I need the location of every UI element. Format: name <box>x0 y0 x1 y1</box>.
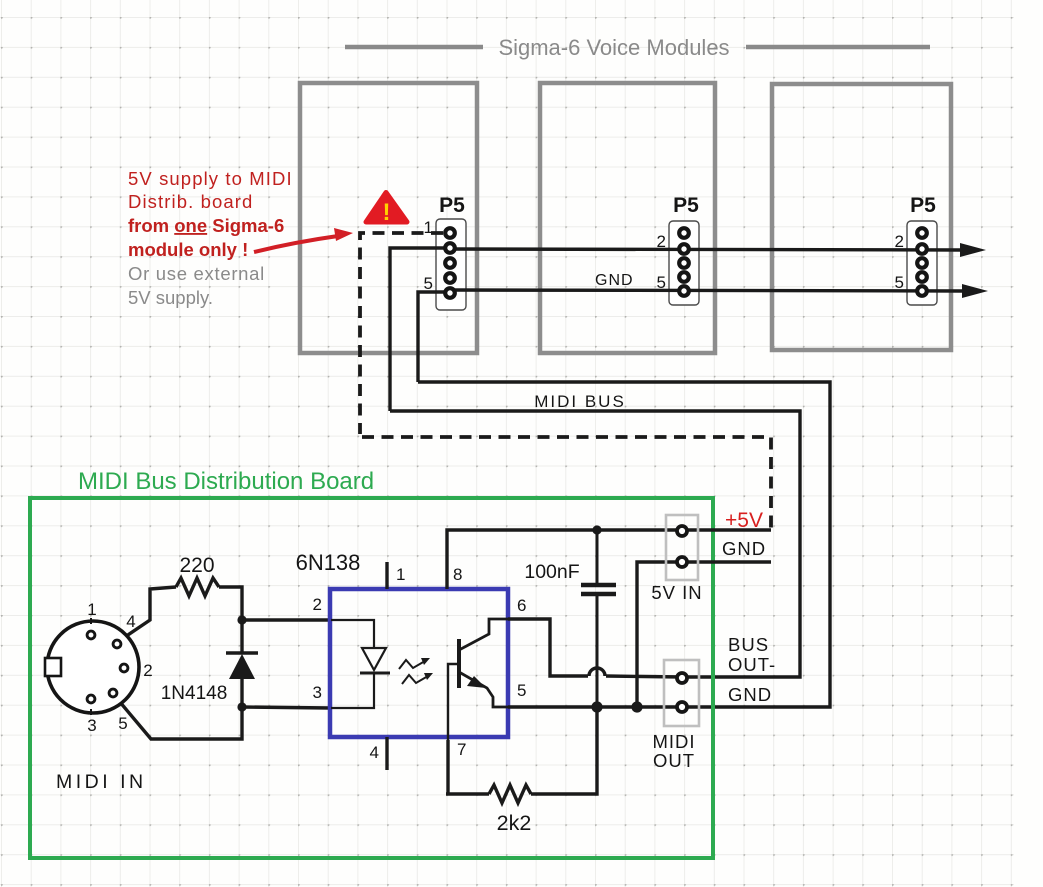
resistor R2 2k2 + wire from pin 7 <box>446 707 597 803</box>
wire: DIN pin5 to node B <box>114 695 242 739</box>
svg-text:GND: GND <box>728 684 772 705</box>
wire: GND pin5 line across modules with arrow <box>450 284 988 298</box>
svg-text:7: 7 <box>457 740 466 759</box>
P5-3 pins <box>917 228 927 296</box>
svg-text:P5: P5 <box>439 194 465 217</box>
svg-text:5: 5 <box>118 714 127 733</box>
wire: pin2 left drop from module 1 <box>390 248 450 411</box>
wire: MIDI bus horizontal + right vertical to BUS OUT <box>390 411 800 677</box>
svg-text:MIDI BUS: MIDI BUS <box>534 392 626 411</box>
svg-text:1: 1 <box>396 565 405 584</box>
svg-text:OUT: OUT <box>653 750 695 771</box>
svg-text:6N138: 6N138 <box>296 550 361 575</box>
diode D1 1N4148 <box>226 616 258 708</box>
svg-text:MIDI IN: MIDI IN <box>56 771 147 793</box>
svg-text:5V IN: 5V IN <box>651 582 702 603</box>
light arrows <box>399 658 433 684</box>
P5-1 pins <box>445 228 455 298</box>
svg-text:GND: GND <box>722 538 766 559</box>
svg-text:220: 220 <box>179 554 214 577</box>
svg-text:MIDI Bus Distribution Board: MIDI Bus Distribution Board <box>78 468 374 495</box>
wire: node A to opto pin 2 <box>242 618 331 621</box>
wire: MIDI bus pin2 line across modules with arrow <box>450 243 986 257</box>
wire: GND bus horizontal + right vertical to MIDI OUT GND <box>418 382 830 707</box>
P5-2 pins <box>679 228 689 296</box>
svg-text:module only !: module only ! <box>128 239 248 260</box>
transistor Q1 inside opto <box>448 619 508 740</box>
board outline (green box) <box>30 498 713 858</box>
svg-text:!: ! <box>383 199 391 226</box>
svg-text:8: 8 <box>453 565 462 584</box>
svg-text:+5V: +5V <box>725 509 763 532</box>
dashed +5V feed wire from module 1 pin1 <box>360 233 771 528</box>
svg-text:Sigma-6 Voice Modules: Sigma-6 Voice Modules <box>498 35 729 60</box>
resistor R1 220 <box>176 578 219 596</box>
red arrow <box>254 228 353 252</box>
title rule right <box>746 45 930 50</box>
junction C1/R2/pin5 <box>591 701 602 712</box>
P5 connector module 1 <box>424 194 466 310</box>
capacitor C1 100nF <box>581 530 616 707</box>
svg-text:3: 3 <box>313 683 322 702</box>
svg-text:BUS: BUS <box>728 634 769 655</box>
wire: DIN pin4 to resistor R1 to node A <box>119 587 176 641</box>
svg-text:6: 6 <box>517 596 526 615</box>
svg-text:2: 2 <box>313 595 322 614</box>
pin 7 stub <box>446 740 449 794</box>
module box M2 <box>540 83 715 353</box>
node B junction <box>237 702 246 711</box>
svg-text:5V supply.: 5V supply. <box>128 287 213 308</box>
warning triangle <box>366 193 407 227</box>
5V IN connector J2 <box>666 515 698 580</box>
P5 connector module 3 <box>895 194 937 305</box>
wire: resistor to node A <box>219 587 242 618</box>
svg-text:2: 2 <box>143 661 152 680</box>
svg-text:from one Sigma-6: from one Sigma-6 <box>128 215 284 236</box>
pin 8 stub + top rail to 5V IN <box>447 530 771 589</box>
pin 4 stub <box>385 737 388 770</box>
svg-text:5: 5 <box>895 273 904 292</box>
module box M3 <box>772 84 951 350</box>
wire: opto pin 6 to BUS OUT (with hop) <box>508 619 683 677</box>
svg-text:OUT-: OUT- <box>728 654 776 675</box>
MIDI OUT connector J3 <box>664 660 699 726</box>
wire: pin5 left drop from module 1 <box>418 292 450 382</box>
svg-text:GND: GND <box>595 272 634 289</box>
svg-text:P5: P5 <box>673 194 699 217</box>
svg-text:5: 5 <box>424 274 433 293</box>
pin 1 stub <box>385 562 388 589</box>
svg-text:4: 4 <box>370 743 379 762</box>
svg-text:P5: P5 <box>910 194 936 217</box>
svg-text:4: 4 <box>126 612 135 631</box>
svg-text:MIDI: MIDI <box>652 731 695 752</box>
module box M1 <box>300 83 477 353</box>
LED inside opto <box>331 620 390 708</box>
svg-text:1N4148: 1N4148 <box>161 683 228 704</box>
wire: 5V IN GND pin down to GND rail <box>637 562 771 707</box>
node A junction <box>237 615 246 624</box>
wire: opto pin 5 / GND rail <box>508 705 683 708</box>
MIDI DIN connector J1 <box>45 600 153 735</box>
svg-text:3: 3 <box>87 716 96 735</box>
svg-text:5V supply to MIDI: 5V supply to MIDI <box>128 168 293 189</box>
P5 connector module 2 <box>657 194 700 305</box>
svg-text:Distrib. board: Distrib. board <box>128 191 253 212</box>
junction GND rail <box>631 701 642 712</box>
svg-text:Or use external: Or use external <box>128 263 265 284</box>
warning note (red/gray text) <box>128 168 293 308</box>
MIDI OUT label <box>652 731 695 771</box>
svg-text:1: 1 <box>87 600 96 619</box>
svg-text:2k2: 2k2 <box>497 811 532 835</box>
svg-text:100nF: 100nF <box>524 561 579 583</box>
opto U1 body (blue box) <box>330 589 508 737</box>
svg-text:5: 5 <box>517 681 526 700</box>
title rule left <box>345 45 483 50</box>
svg-text:2: 2 <box>895 232 904 251</box>
wire: node B to opto pin 3 <box>242 707 331 708</box>
BUS OUT- label <box>728 634 776 675</box>
junction on +5V rail <box>592 525 601 534</box>
